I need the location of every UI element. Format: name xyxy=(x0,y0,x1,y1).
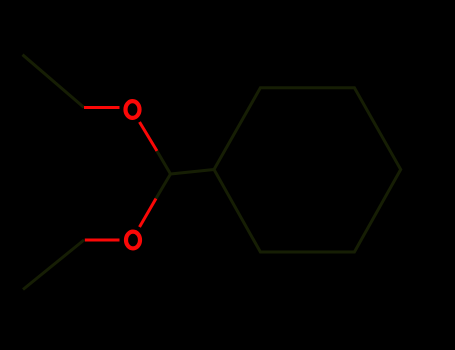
wire: bottom C-O bond horizontal (red) xyxy=(85,239,120,242)
wire: top C-O bond horizontal (red) xyxy=(84,106,120,109)
wire: CH to ring bond (dark carbon) xyxy=(171,170,215,175)
atom O2 (bottom oxygen) xyxy=(126,232,140,249)
wire: O1 to CH bond, red half xyxy=(140,122,158,151)
wire: O1 to CH bond, carbon half (dark) xyxy=(157,151,171,174)
atom O1 (top oxygen) xyxy=(126,101,140,118)
ring: cyclohexane hexagon (dark carbon) xyxy=(214,88,401,252)
wire: O2 to CH bond, carbon half (dark) xyxy=(156,174,171,199)
wire: O2 to CH bond, red half xyxy=(140,199,157,228)
wire: bottom ethyl C-C bond (dark carbon) xyxy=(23,240,84,290)
wire: top ethyl C-C bond (dark carbon) xyxy=(23,55,85,108)
